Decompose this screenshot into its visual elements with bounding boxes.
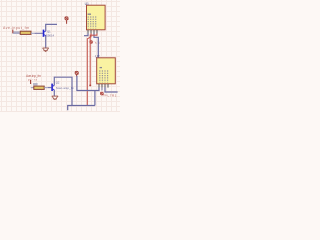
- svg-text:pt-rx: pt-rx: [28, 77, 38, 81]
- U2 pin name texts (vertical): [100, 70, 108, 82]
- wire H2 bottom: [71, 105, 95, 107]
- svg-text:Ave-input_fm: Ave-input_fm: [3, 26, 29, 30]
- U1 pin name texts (vertical): [88, 16, 96, 28]
- wire Q2 collector up and right (rail 2), down at x72: [54, 77, 72, 105]
- resistor R2: [34, 86, 44, 89]
- U2 pin stubs: [99, 84, 108, 88]
- wire H1: flag riser to U2 pin1: [77, 76, 99, 91]
- resistor R2 value text: [33, 83, 38, 85]
- wire tick to R2: [31, 87, 34, 89]
- transistor Q2: [51, 84, 54, 91]
- wire stub step left-down: [68, 106, 72, 111]
- wire U1 pin1 hook: [84, 33, 88, 35]
- net label tick (channel 1): [12, 30, 14, 34]
- svg-text:Q2: Q2: [56, 81, 60, 85]
- wire U2 pin3 down right: [105, 87, 118, 92]
- svg-text:U2: U2: [95, 54, 99, 58]
- svg-text:G: G: [104, 93, 106, 97]
- net label tick (channel 2): [30, 80, 32, 84]
- wire R2 to Q2 base: [44, 87, 48, 89]
- IC module U2: [97, 58, 116, 84]
- net label Audio_input_fm (channel 1): [3, 26, 29, 30]
- wire Q1 collector up and right (rail 1): [46, 24, 57, 31]
- junction dot end of red: [89, 84, 91, 86]
- svg-text:L7R1: L7R1: [108, 93, 117, 97]
- svg-text:S9014: S9014: [46, 33, 55, 37]
- svg-text:Q1: Q1: [47, 29, 51, 33]
- resistor R1 value text: [13, 31, 19, 33]
- wire Q2 emitter down: [53, 90, 55, 96]
- wire U1 pin3 to U2 top: [94, 33, 98, 57]
- transistor Q1: [43, 30, 46, 37]
- wire U1 pin4 red: [90, 33, 97, 85]
- power flag F1: [65, 17, 69, 24]
- power flag F2: [75, 71, 79, 76]
- wire Q1 emitter down: [45, 36, 47, 48]
- ground (channel 1): [43, 48, 49, 52]
- wire U1 pin2 red down long: [87, 33, 91, 105]
- net flag glyph mid right: [90, 41, 93, 44]
- resistor R1: [20, 31, 31, 34]
- svg-text:U1: U1: [85, 2, 89, 6]
- U1 pin stubs: [88, 30, 97, 34]
- svg-text:5V: 5V: [95, 41, 100, 45]
- wire V1 tee down: [94, 91, 96, 106]
- IC module U1: [87, 5, 106, 30]
- wire R1 to Q1 base: [31, 32, 35, 34]
- U2 pin2 red stub and net glyph: [101, 87, 103, 90]
- ground (channel 2): [52, 96, 58, 100]
- wire label to R1: [13, 32, 20, 34]
